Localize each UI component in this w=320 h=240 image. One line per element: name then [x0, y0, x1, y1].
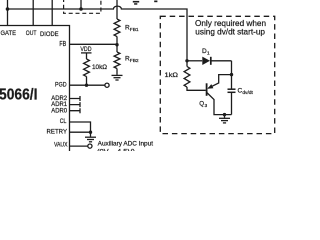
ground (divider): [112, 75, 123, 80]
resistor RFB1: [114, 19, 120, 37]
wire: OUT pin vertical: [32, 0, 34, 26]
resistor 10k pull-up: [84, 59, 90, 77]
node: lead junction: [79, 7, 83, 11]
node: emitter/cap junction: [230, 73, 233, 76]
wire: divider bottom: [116, 69, 118, 75]
svg-text:FB1: FB1: [130, 27, 139, 33]
node: PGD pull-up junction: [85, 84, 88, 87]
optional component above (cut off) dashed outline: [64, 0, 101, 13]
resistor RFB2: [114, 52, 120, 69]
svg-text:FB: FB: [59, 41, 66, 48]
wire: ground stub Q3: [224, 115, 226, 118]
wire: GATE pin vertical: [7, 0, 9, 26]
wire: D1 anode: [187, 60, 202, 62]
svg-text:GATE: GATE: [1, 30, 17, 37]
IC U1 LM5066/I outline: [0, 26, 70, 152]
node: gate junction: [6, 7, 10, 11]
svg-text:ADR0: ADR0: [51, 107, 67, 114]
svg-text:VDD: VDD: [80, 46, 91, 53]
svg-text:CL: CL: [60, 118, 67, 125]
svg-text:DIODE: DIODE: [40, 31, 59, 38]
svg-text:1: 1: [207, 51, 210, 57]
ground (CL/RETRY): [85, 137, 96, 142]
node: gate feed junction: [185, 59, 188, 62]
node: collector/cap/ground junction: [223, 113, 226, 116]
svg-text:(0V – 4.5V): (0V – 4.5V): [97, 148, 135, 151]
node: FB tap: [115, 43, 118, 46]
wire: cap top branch: [231, 61, 233, 89]
wire: ADR2 stub: [70, 96, 81, 101]
svg-text:OUT: OUT: [26, 30, 37, 37]
wire: ground stub: [90, 132, 92, 137]
svg-text:3: 3: [205, 103, 208, 109]
svg-text:10kΩ: 10kΩ: [92, 64, 107, 71]
svg-text:FB2: FB2: [130, 58, 139, 64]
ground (dv/dt circuit): [219, 118, 230, 123]
wire: divider middle: [116, 37, 118, 53]
svg-text:Auxiliary ADC Input: Auxiliary ADC Input: [98, 140, 154, 147]
wire: FB to divider tap: [70, 43, 118, 45]
wire: ADR1 stub: [70, 102, 81, 107]
wire: DIODE pin vertical: [51, 0, 53, 26]
wire: 1k bottom to Q3 base: [187, 87, 206, 90]
wire: ADR0 stub: [70, 108, 81, 113]
resistor 1k: [184, 67, 190, 88]
wire: VAUX: [70, 145, 88, 147]
node: CL/RETRY junction: [89, 131, 92, 134]
wire: D1 cathode: [211, 60, 231, 62]
svg-text:1kΩ: 1kΩ: [165, 72, 179, 79]
wire: cap bottom lead: [231, 93, 233, 115]
Q3 emitter with arrow: [208, 75, 231, 89]
svg-text:using dv/dt start-up: using dv/dt start-up: [195, 27, 265, 36]
diode D1: [202, 57, 210, 65]
wire: VDD stub: [86, 53, 88, 59]
transistor Q3 (PNP): [207, 75, 232, 115]
Q3 base bar: [206, 83, 208, 96]
wire: optional component lead: [80, 0, 82, 9]
terminal: auxiliary ADC input: [88, 144, 92, 148]
wire: divider top from above: [116, 0, 118, 19]
wire: RETRY: [70, 131, 91, 133]
wire: 1k top lead: [186, 61, 188, 67]
svg-text:5066/I: 5066/I: [0, 87, 38, 104]
wire: 10k bottom: [86, 77, 88, 86]
svg-text:PGD: PGD: [55, 81, 67, 88]
terminal: PGD output: [105, 83, 109, 87]
svg-text:VAUX: VAUX: [54, 141, 68, 148]
svg-text:dv/dt: dv/dt: [242, 90, 253, 96]
capacitor Cdv/dt: [228, 89, 236, 114]
cut-off symbol remnant 1: [133, 1, 139, 3]
dv/dt option dashed box: [160, 16, 274, 133]
cut-off symbol remnant 2: [154, 1, 157, 3]
wire: CL to ground: [70, 122, 91, 132]
svg-text:RETRY: RETRY: [47, 129, 68, 136]
wire: gate rail to dv/dt box (hops over feedback divider): [8, 6, 188, 61]
Q3 collector: [207, 93, 232, 115]
wire: PGD: [70, 84, 105, 86]
